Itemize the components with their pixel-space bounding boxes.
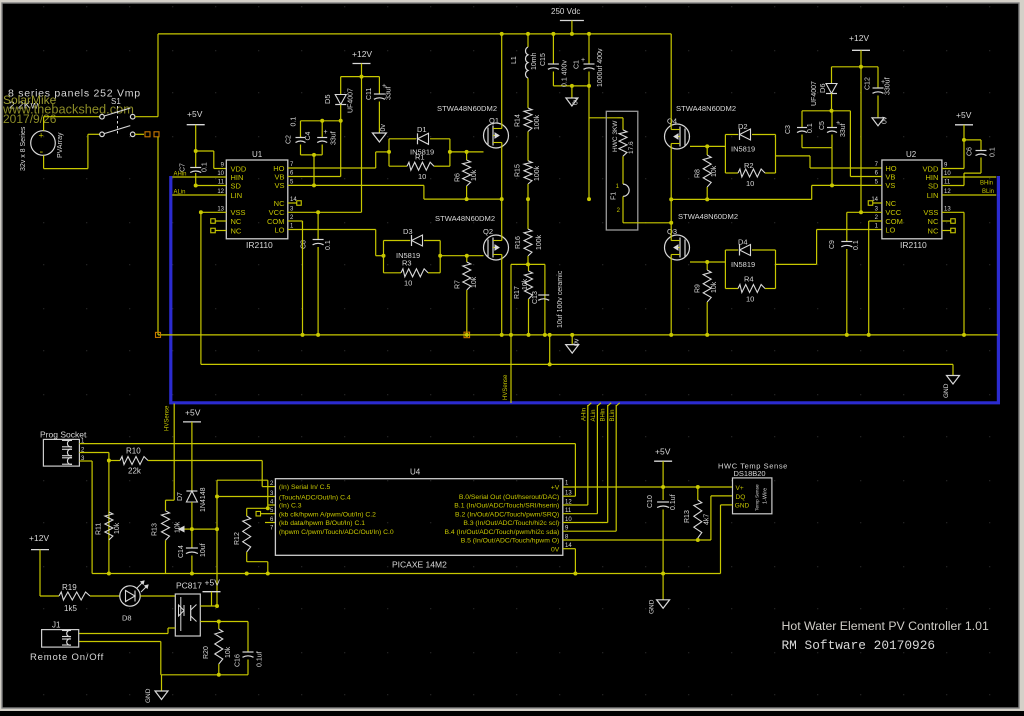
svg-text:BHin: BHin [601,408,607,421]
svg-text:U4: U4 [410,468,421,477]
svg-text:VB: VB [885,172,895,181]
svg-text:0.1: 0.1 [291,117,298,127]
svg-text:C14: C14 [178,545,185,558]
svg-text:0.1: 0.1 [807,123,814,133]
svg-text:V+: V+ [736,485,744,492]
svg-text:Remote On/Off: Remote On/Off [30,652,104,663]
svg-text:11: 11 [565,508,572,514]
svg-text:ALin: ALin [591,409,597,421]
svg-text:U1: U1 [252,150,263,159]
svg-text:Q2: Q2 [483,227,493,236]
svg-text:C11: C11 [366,88,373,100]
svg-text:330uf: 330uf [885,77,892,95]
svg-text:10k: 10k [471,276,478,288]
svg-text:4k7: 4k7 [704,514,711,525]
svg-text:10mh: 10mh [531,52,538,70]
svg-text:UF4007: UF4007 [348,88,355,113]
svg-text:IR2110: IR2110 [900,240,927,250]
svg-text:D5: D5 [323,94,332,104]
svg-text:(In) Serial In/ C.5: (In) Serial In/ C.5 [279,484,331,491]
svg-text:Temp Sense: Temp Sense [755,484,761,511]
svg-text:10k: 10k [522,278,529,290]
svg-text:(kb clk/hpwm A/pwm/Out/In) C.2: (kb clk/hpwm A/pwm/Out/In) C.2 [279,511,376,518]
svg-text:STWA48N60DM2: STWA48N60DM2 [437,104,497,113]
svg-text:AHin: AHin [581,408,587,421]
svg-text:STWA48N60DM2: STWA48N60DM2 [676,104,736,113]
svg-text:C8: C8 [301,240,308,249]
svg-text:0.1: 0.1 [202,162,209,172]
svg-text:NC: NC [928,217,939,226]
svg-text:HVSense: HVSense [165,405,171,431]
svg-text:R8: R8 [695,169,702,178]
svg-text:32v x 8 Series: 32v x 8 Series [20,126,27,171]
svg-text:-: - [40,146,44,158]
svg-text:LIN: LIN [231,191,243,200]
svg-text:11: 11 [218,180,225,186]
svg-text:ALin: ALin [174,190,186,196]
svg-text:100k: 100k [536,234,543,250]
svg-text:(In) C.3: (In) C.3 [279,503,302,510]
svg-text:1000uf 400v: 1000uf 400v [597,48,604,87]
svg-text:VB: VB [274,172,284,181]
svg-text:SD: SD [231,181,242,190]
svg-text:C3: C3 [785,125,792,134]
svg-text:RM Software 20170926: RM Software 20170926 [782,638,936,653]
svg-text:R12: R12 [234,532,241,545]
svg-text:VSS: VSS [923,208,938,217]
svg-text:0v: 0v [574,338,581,346]
svg-text:+5V: +5V [185,408,201,418]
svg-text:10k: 10k [225,646,232,658]
svg-text:R11: R11 [96,523,103,535]
svg-text:(hpwm C/pwm/Touch/ADC/Out/In): (hpwm C/pwm/Touch/ADC/Out/In) C.0 [279,529,394,536]
svg-text:AHin: AHin [174,172,187,178]
svg-text:LIN: LIN [927,191,939,200]
svg-text:SD: SD [928,181,939,190]
svg-text:D8: D8 [122,614,132,623]
svg-text:0.1 400v: 0.1 400v [562,60,569,87]
svg-text:0.1: 0.1 [853,240,860,250]
svg-text:0v: 0v [380,124,387,132]
svg-text:250 Vdc: 250 Vdc [551,7,580,16]
svg-text:33uf: 33uf [840,123,847,137]
svg-text:10: 10 [217,171,224,177]
svg-text:HVSense: HVSense [503,374,509,400]
svg-text:F1: F1 [611,192,618,200]
svg-text:STWA48N60DM2: STWA48N60DM2 [678,212,738,221]
svg-text:13: 13 [217,207,224,213]
svg-text:10: 10 [746,295,754,304]
svg-text:10k: 10k [711,281,718,293]
svg-text:L1: L1 [511,56,518,64]
svg-text:D2: D2 [738,122,748,131]
svg-text:B.2 (In/Out/ADC/Touch/pwm/SRQ): B.2 (In/Out/ADC/Touch/pwm/SRQ) [455,511,559,518]
svg-text:12: 12 [944,189,951,195]
svg-text:2017/9/26: 2017/9/26 [3,112,57,126]
svg-text:17.6: 17.6 [628,141,635,154]
svg-text:C1: C1 [574,60,581,69]
svg-text:C9: C9 [829,240,836,249]
svg-text:C12: C12 [865,77,872,90]
svg-text:+: + [581,57,585,64]
svg-text:10uf 100v ceramic: 10uf 100v ceramic [557,270,564,328]
svg-text:U2: U2 [906,150,917,159]
svg-text:R15: R15 [515,164,522,177]
svg-text:GND: GND [943,383,950,398]
svg-text:GND: GND [145,688,152,703]
svg-text:GND: GND [649,599,656,614]
svg-text:+V: +V [551,485,560,492]
svg-text:10k: 10k [471,169,478,181]
svg-text:BHin: BHin [980,181,993,187]
svg-text:10uf: 10uf [200,543,207,557]
svg-text:B.3 (In/Out/ADC/Touch/hi2c scl: B.3 (In/Out/ADC/Touch/hi2c scl) [463,520,559,527]
svg-text:D4: D4 [738,238,748,247]
svg-text:NC: NC [928,226,939,235]
svg-text:VCC: VCC [885,208,901,217]
svg-text:R20: R20 [203,646,210,659]
svg-text:Hot Water Element PV Controlle: Hot Water Element PV Controller 1.01 [782,619,989,633]
svg-text:33uf: 33uf [331,131,338,145]
svg-text:IR2110: IR2110 [246,240,273,250]
svg-text:+12V: +12V [29,533,49,543]
svg-text:D7: D7 [177,492,184,501]
svg-text:+: + [39,131,44,141]
svg-text:0.1: 0.1 [990,147,997,157]
svg-text:R13: R13 [684,510,691,523]
svg-text:Prog Socket: Prog Socket [40,430,87,440]
svg-text:C10: C10 [647,495,654,508]
svg-text:R13: R13 [152,523,159,536]
svg-text:VCC: VCC [269,208,285,217]
svg-text:10: 10 [746,179,754,188]
svg-text:B.1 (In/Out/ADC/Touch/SRI/hser: B.1 (In/Out/ADC/Touch/SRI/hserin) [454,503,559,510]
svg-text:VS: VS [885,181,895,190]
svg-text:14: 14 [565,543,572,549]
svg-text:0.1uf: 0.1uf [670,494,677,510]
svg-text:+12V: +12V [352,49,372,59]
svg-text:R9: R9 [695,284,702,293]
svg-text:NC: NC [274,199,285,208]
svg-text:+5V: +5V [655,447,671,457]
svg-text:1-Wire: 1-Wire [763,488,769,504]
svg-text:11: 11 [944,180,951,186]
svg-text:10k: 10k [711,165,718,177]
svg-text:IN5819: IN5819 [731,145,755,154]
svg-text:UF4007: UF4007 [811,81,818,106]
svg-text:B.0/Serial Out (Out/hserout/DA: B.0/Serial Out (Out/hserout/DAC) [459,494,559,501]
svg-text:0v: 0v [882,116,889,124]
svg-text:C13: C13 [532,291,539,304]
svg-text:10k: 10k [175,521,182,533]
svg-text:+5V: +5V [956,110,972,120]
svg-text:C2: C2 [286,135,293,144]
svg-text:PC817: PC817 [176,581,202,591]
svg-text:C15: C15 [540,53,547,66]
svg-text:0.1uf: 0.1uf [257,651,264,667]
svg-text:NC: NC [231,217,242,226]
svg-text:PVArray: PVArray [57,132,64,158]
svg-text:NC: NC [885,199,896,208]
svg-text:10: 10 [418,172,426,181]
svg-text:VS: VS [274,181,284,190]
svg-text:10: 10 [404,279,412,288]
svg-text:100k: 100k [534,114,541,130]
svg-text:22k: 22k [128,467,142,476]
svg-text:DS18B20: DS18B20 [734,469,766,478]
svg-text:LO: LO [274,225,284,234]
svg-text:(Touch/ADC/Out/In) C.4: (Touch/ADC/Out/In) C.4 [279,495,351,502]
svg-text:0V: 0V [551,546,560,553]
svg-text:R19: R19 [62,583,77,592]
svg-text:R3: R3 [402,259,412,268]
svg-text:HWC 3KW: HWC 3KW [612,120,619,152]
svg-text:STWA48N60DM2: STWA48N60DM2 [435,214,495,223]
svg-text:S1: S1 [111,97,121,106]
svg-text:R4: R4 [744,275,754,284]
svg-text:33uf: 33uf [386,86,393,100]
svg-text:B.4 (In/Out/ADC/Touch/pwm/hi2c: B.4 (In/Out/ADC/Touch/pwm/hi2c sda) [444,529,559,536]
svg-text:GND: GND [735,503,750,510]
svg-text:R7: R7 [455,280,462,289]
svg-text:1N4148: 1N4148 [200,487,207,512]
svg-text:10k: 10k [114,522,121,534]
svg-text:R17: R17 [514,286,521,299]
svg-text:13: 13 [944,207,951,213]
svg-text:C6: C6 [967,147,974,156]
svg-text:BLin: BLin [610,409,616,421]
svg-text:12: 12 [217,189,224,195]
svg-text:+5V: +5V [205,578,221,588]
svg-text:+5V: +5V [187,109,203,119]
svg-text:+: + [324,129,328,136]
svg-text:R1: R1 [415,153,425,162]
svg-text:J1: J1 [52,620,61,629]
svg-text:LO: LO [885,225,895,234]
svg-text:BLin: BLin [982,189,994,195]
svg-text:B.5 (In/Out/ADC/Touch/hpwm O): B.5 (In/Out/ADC/Touch/hpwm O) [461,538,560,545]
svg-text:R10: R10 [126,447,141,456]
svg-text:+12V: +12V [849,33,869,43]
svg-text:R16: R16 [515,236,522,249]
svg-text:10: 10 [944,171,951,177]
svg-text:100k: 100k [534,165,541,181]
svg-text:DQ: DQ [736,494,746,501]
svg-text:R2: R2 [744,161,754,170]
svg-text:D1: D1 [417,125,427,134]
svg-text:C16: C16 [235,654,242,667]
svg-text:0v: 0v [573,97,580,105]
svg-text:1k5: 1k5 [64,604,77,613]
svg-text:NC: NC [231,226,242,235]
svg-text:R6: R6 [455,173,462,182]
svg-text:VSS: VSS [231,208,246,217]
svg-text:PICAXE 14M2: PICAXE 14M2 [392,560,447,570]
svg-text:D6: D6 [818,83,827,93]
svg-text:C5: C5 [819,121,826,130]
svg-text:D3: D3 [403,227,413,236]
svg-text:0.1: 0.1 [325,240,332,250]
svg-text:IN5819: IN5819 [731,260,755,269]
svg-text:R14: R14 [515,114,522,127]
svg-text:C4: C4 [305,131,312,140]
svg-text:(kb data/hpwm B/Out/In) C.1: (kb data/hpwm B/Out/In) C.1 [279,520,365,527]
